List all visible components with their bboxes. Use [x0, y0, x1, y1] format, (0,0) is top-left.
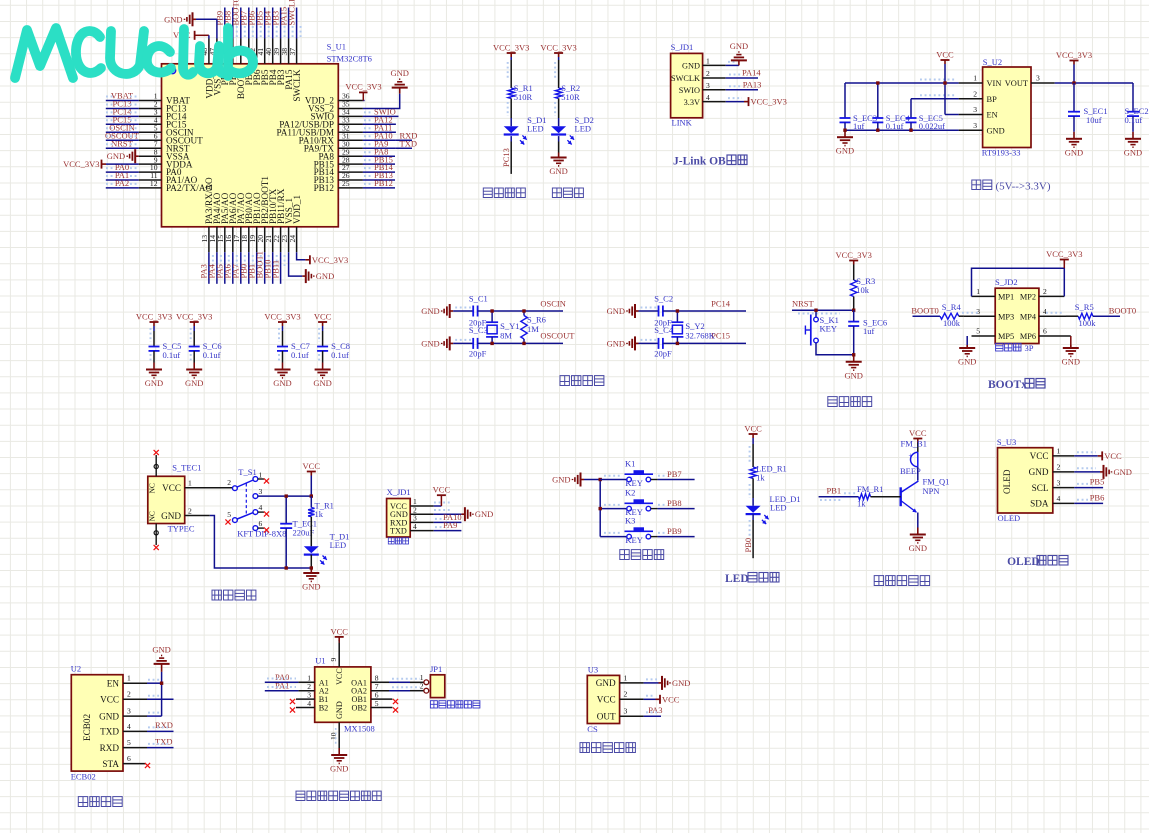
ground below S_EC2 [1124, 132, 1142, 158]
svg-text:2: 2 [127, 690, 131, 699]
ground (left of S_C1) [421, 304, 453, 318]
svg-text:PC13: PC13 [501, 148, 511, 167]
net label PC15 [106, 115, 138, 125]
jumper S_JD2 body [995, 288, 1039, 343]
svg-text:1: 1 [1057, 447, 1061, 456]
pin 1 of JP1 [420, 673, 429, 685]
title: bluetooth module (CJK) [78, 797, 122, 807]
pin 34 SWIO (right) [311, 108, 363, 122]
wire net PA2 [106, 187, 139, 189]
wire emitter to ground [917, 513, 919, 528]
svg-text:MP2: MP2 [1020, 293, 1036, 302]
junction EC5 bottom [909, 129, 912, 132]
ground at pin 8 VSSA [107, 149, 139, 163]
net label PB7 [604, 469, 682, 479]
wire net PC14 [106, 115, 139, 117]
svg-text:6: 6 [1043, 327, 1047, 336]
pin 35 VSS_2 (right) [308, 100, 363, 114]
designator JP1 [430, 664, 442, 674]
junction key top [814, 309, 817, 312]
ground (left of S_C3) [421, 336, 453, 350]
wire net VBAT [106, 100, 139, 102]
connector JP1 body [430, 675, 444, 698]
wire to net [651, 508, 695, 510]
wire net PC15 [106, 123, 139, 125]
svg-text:PB0: PB0 [743, 538, 753, 553]
wire net OSCIN [106, 131, 139, 133]
svg-text:10k: 10k [856, 285, 870, 295]
net label PC14 [106, 107, 138, 117]
svg-text:VCC_3V3: VCC_3V3 [493, 43, 529, 53]
capacitor S_C7 0.1uf [277, 341, 310, 360]
net label PB6 [1077, 492, 1104, 502]
wire pin5 to ground [966, 336, 968, 347]
wire [279, 326, 283, 362]
pin 5 OSCIN (left) [139, 124, 194, 138]
svg-text:10: 10 [329, 732, 338, 740]
designator U2 [71, 664, 81, 674]
wire net PA13 [726, 89, 758, 91]
svg-text:GND: GND [316, 271, 334, 281]
wire pin2 to VCC [644, 696, 656, 700]
pin 19 PB1/AO (bottom) [248, 192, 262, 252]
pin 2 VCC of U2 [100, 690, 147, 705]
wire [453, 340, 473, 344]
svg-text:GND: GND [958, 357, 976, 367]
junction EC3/ground [843, 129, 846, 132]
svg-text:4: 4 [706, 93, 710, 102]
wire pin1 [147, 680, 162, 684]
net label PB13 [364, 170, 393, 180]
svg-text:2: 2 [420, 681, 424, 690]
power VCC_3V3 above VOUT [1056, 50, 1092, 83]
wire to net [651, 479, 695, 481]
key switch K1 KEY [625, 459, 654, 489]
rotated VCC text inside U1 [335, 668, 344, 685]
wire [453, 308, 473, 312]
svg-text:4: 4 [259, 503, 263, 512]
svg-text:3: 3 [706, 81, 710, 90]
pin 4 B2 of U1 [296, 699, 328, 713]
svg-text:MX1508: MX1508 [344, 724, 375, 734]
net label PB9 [215, 11, 229, 37]
pin 4 TXD of U2 [100, 722, 147, 737]
svg-text:VCC: VCC [744, 424, 762, 434]
svg-text:SCL: SCL [1032, 483, 1049, 493]
wire [752, 478, 754, 505]
svg-text:VCC_3V3: VCC_3V3 [836, 250, 872, 260]
net label PB11 [270, 255, 284, 279]
connector X_JD1 body [387, 499, 411, 538]
wire net PB15 [363, 163, 395, 165]
svg-text:PA1: PA1 [275, 680, 289, 690]
svg-text:FM_B1: FM_B1 [901, 438, 927, 448]
pin 2 VCC of U3 sensor [597, 690, 644, 705]
pin 28 PB15 (right) [314, 155, 363, 169]
svg-text:1: 1 [127, 674, 131, 683]
svg-text:S_R4: S_R4 [942, 302, 962, 312]
wire [639, 340, 659, 344]
wire net PA5 [224, 252, 226, 284]
net label NRST [792, 299, 840, 314]
svg-text:OLED: OLED [1007, 556, 1040, 568]
svg-text:TYPEC: TYPEC [168, 524, 195, 534]
wire pin2 to ground [1074, 468, 1100, 472]
pin 11 PA1/AO (left) [139, 171, 198, 185]
svg-text:5: 5 [127, 738, 131, 747]
wire pin2 to ground [434, 513, 462, 515]
svg-text:3: 3 [1057, 478, 1061, 487]
svg-text:PA14: PA14 [742, 68, 761, 78]
pin 3 MP3 of S_JD2 [964, 307, 1014, 322]
wire [853, 297, 855, 311]
svg-text:3: 3 [973, 121, 977, 130]
switch T_S1 KFT DIP-8X8 [227, 467, 286, 539]
pin 1 VCC of X_JD1 [390, 497, 434, 511]
wire net PB9 [224, 8, 226, 39]
pin 1 MP1 of S_JD2 [972, 287, 1015, 302]
wire net PA15 [288, 8, 290, 39]
module S_U3 OLED body [998, 448, 1053, 513]
designator S_JD2 [995, 277, 1018, 287]
svg-text:GND: GND [552, 475, 570, 485]
LED S_D1 [504, 115, 547, 145]
buzzer FM_B1 BEEP [900, 438, 927, 476]
svg-text:1: 1 [976, 287, 980, 296]
svg-text:24: 24 [288, 235, 297, 243]
svg-text:KEY: KEY [625, 478, 642, 488]
svg-text:25: 25 [342, 179, 350, 188]
svg-text:GND: GND [145, 378, 163, 388]
wire net PB8 [232, 8, 234, 39]
svg-text:BOOTx: BOOTx [988, 379, 1027, 391]
net label PA10 [364, 130, 393, 140]
ground at pin 47 VSS_3 [164, 12, 217, 38]
svg-text:U2: U2 [71, 664, 81, 674]
svg-text:PB5: PB5 [1090, 477, 1105, 487]
net label PC14 [711, 299, 731, 309]
svg-text:S_U1: S_U1 [327, 42, 346, 52]
svg-text:100k: 100k [1079, 318, 1097, 328]
svg-text:0.022uf: 0.022uf [919, 121, 945, 131]
svg-text:GND: GND [844, 370, 862, 380]
svg-text:GND: GND [682, 62, 700, 71]
resistor LED_R1 1k [750, 464, 787, 483]
pin 6 MP6 of S_JD2 [1020, 327, 1071, 342]
junction EC4 top [876, 81, 879, 84]
svg-text:VCC: VCC [433, 484, 451, 494]
pin 40 PB4 (top) [264, 39, 278, 86]
wire VSS_2 to ground [363, 94, 400, 109]
pin 1 A1 of U1 [298, 674, 328, 688]
capacitor S_C5 0.1uf [149, 341, 182, 360]
pin 6 OSCOUT (left) [139, 131, 203, 145]
key switch S_K1 KEY [805, 310, 838, 345]
wire key bottom [816, 343, 854, 355]
net label PB0 (rotated) [743, 538, 753, 553]
svg-text:3: 3 [624, 707, 628, 716]
rotated ECB02 text inside [82, 714, 92, 741]
svg-text:MP6: MP6 [1020, 332, 1036, 341]
svg-text:GND: GND [152, 644, 170, 654]
power VCC above X_JD1 pin1 [433, 484, 451, 506]
wire net PA9 [363, 147, 396, 149]
svg-text:S_C1: S_C1 [469, 294, 488, 304]
svg-text:S_C2: S_C2 [654, 294, 673, 304]
designator X_JD1 [387, 487, 411, 497]
pin 4 SDA of S_U3 [1030, 494, 1074, 509]
no-connect X bottom [154, 545, 159, 550]
resistor S_R3 10k [851, 276, 876, 297]
wire GND bus [845, 129, 959, 131]
junction crystal bottom [676, 342, 679, 345]
pin 4 MP4 of S_JD2 [1020, 307, 1066, 322]
wire net PB3 [280, 8, 282, 39]
svg-text:3: 3 [127, 707, 131, 716]
pin 20 PB2/BOOT1 (bottom) [256, 176, 270, 253]
junction R6 bottom [522, 342, 525, 345]
junction EC1 top [285, 494, 288, 497]
net label SWCLK [286, 0, 300, 37]
sensor U3 CS body [587, 675, 619, 723]
capacitor S_C2 20pF [654, 294, 673, 328]
pin 30 PA9/TX (right) [304, 139, 363, 153]
wire VIN bus [845, 80, 959, 84]
svg-text:VCC_3V3: VCC_3V3 [1056, 50, 1092, 60]
svg-text:GND: GND [164, 14, 182, 24]
svg-text:VCC_3V3: VCC_3V3 [540, 43, 576, 53]
pin 2 GND of X_JD1 [390, 505, 434, 519]
ground below S_C5 [145, 363, 163, 389]
title: DC motor driver module (CJK) [296, 791, 381, 800]
svg-text:SWCLK: SWCLK [292, 69, 302, 102]
svg-text:FM_R1: FM_R1 [857, 484, 883, 494]
pin 26 PB13 (right) [314, 171, 363, 185]
pin 2 MP2 of S_JD2 [1020, 287, 1064, 302]
designator S_U2 [983, 57, 1002, 67]
pin 5 OB2 of U1 [352, 699, 393, 713]
title: programmable LED (CJK) [483, 188, 525, 198]
svg-text:VCC: VCC [1030, 451, 1049, 461]
wire net PA0 [265, 681, 299, 683]
pin 2 SWCLK of S_JD1 [671, 69, 726, 83]
svg-text:GND: GND [335, 701, 344, 719]
capacitor S_EC6 1uf [848, 310, 887, 355]
pin 2 of JP1 [420, 681, 429, 693]
pin 3 SWIO of S_JD1 [679, 81, 726, 95]
pin 1 GND of U3 sensor [596, 673, 644, 688]
svg-text:OLED: OLED [998, 513, 1021, 523]
svg-text:GND: GND [607, 306, 625, 316]
svg-text:S_U3: S_U3 [997, 437, 1016, 447]
wire [558, 99, 560, 127]
pin 2 PC13 (left) [139, 100, 187, 114]
no-connect at STA [145, 763, 150, 768]
svg-text:GND: GND [421, 338, 439, 348]
wire net PA1 [265, 690, 299, 692]
title: buzzer circuit (CJK) [874, 576, 929, 586]
net label PB15 [364, 154, 393, 164]
junction pin1/gnd [160, 682, 163, 685]
svg-text:GND: GND [987, 126, 1005, 135]
svg-text:GND: GND [672, 678, 690, 688]
net label PA4 [207, 255, 221, 279]
pin 3 PC14 (left) [139, 108, 187, 122]
capacitor S_C8 0.1uf [317, 341, 350, 360]
svg-text:LED: LED [527, 124, 544, 134]
svg-text:GND: GND [1062, 357, 1080, 367]
capacitor S_C6 0.1uf [189, 341, 222, 360]
svg-text:PC14: PC14 [711, 299, 731, 309]
power VCC at pin 48 VDD_3 [173, 30, 209, 40]
svg-text:RT9193-33: RT9193-33 [982, 148, 1021, 158]
capacitor S_EC4 0.1uf [872, 83, 910, 131]
svg-text:GND: GND [99, 711, 119, 721]
ground below pin 5 [958, 345, 976, 367]
power VCC_3V3 at pin 24 VDD_1 [305, 255, 348, 265]
svg-text:3: 3 [1036, 74, 1040, 83]
net label RXD (PA10 row) [396, 130, 418, 140]
svg-text:TXD: TXD [400, 138, 417, 148]
svg-text:PB12: PB12 [374, 178, 393, 188]
svg-text:3P: 3P [1025, 343, 1034, 353]
svg-text:20pF: 20pF [469, 349, 487, 359]
svg-text:SWCLK: SWCLK [671, 74, 700, 83]
wire net PA9 [434, 530, 462, 532]
svg-text:VCC_3V3: VCC_3V3 [312, 255, 348, 265]
net label PA0 [106, 162, 138, 172]
wire net PA4 [216, 252, 218, 284]
wire pin4 to power [726, 98, 744, 102]
no-connect OB1 [393, 699, 398, 704]
svg-text:4: 4 [127, 722, 131, 731]
net label PB12 [364, 178, 393, 188]
pin 13 PA3/RX/AO (bottom) [200, 177, 214, 252]
stub pin1 + no-connect [258, 478, 264, 480]
svg-text:+: + [909, 452, 913, 460]
wire net PB12 [363, 187, 395, 189]
wire OA2 to JP1 [389, 687, 424, 691]
svg-text:PA3: PA3 [648, 705, 662, 715]
resistor S_R5 100k [1046, 302, 1120, 328]
wire pin1 to VCC [434, 503, 452, 511]
pin 15 PA5/AO (bottom) [216, 192, 230, 252]
pin 1 GND of S_JD1 [682, 57, 726, 71]
net label PA3 [199, 255, 213, 279]
title: crystal circuit (CJK) [560, 376, 604, 386]
svg-text:S_Y1: S_Y1 [500, 321, 519, 331]
svg-text:FM_Q1: FM_Q1 [923, 477, 950, 487]
pin 4 3.3V of S_JD1 [684, 93, 726, 107]
net label OSCIN [106, 123, 138, 133]
svg-text:3: 3 [259, 487, 263, 496]
svg-text:ECB02: ECB02 [82, 714, 92, 741]
title: BOOTx settings [988, 379, 1045, 392]
pin 23 VSS_1 (bottom) [280, 198, 294, 253]
svg-text:LINK: LINK [672, 118, 693, 128]
svg-text:GND: GND [107, 151, 125, 161]
pin 4 PC15 (left) [139, 116, 187, 130]
pin 47 VSS_3 (top) [208, 39, 222, 96]
wire [558, 136, 560, 152]
wire [310, 555, 312, 568]
svg-text:GND: GND [475, 509, 493, 519]
svg-text:GND: GND [273, 378, 291, 388]
pin 46 PB9 (top) [216, 39, 230, 86]
shell pin bottom [154, 524, 158, 546]
junction VCC/R1 [310, 494, 313, 497]
pin 7 NRST (left) [139, 139, 190, 153]
ground below S_C6 [185, 363, 203, 389]
svg-text:VCC: VCC [335, 668, 344, 685]
no-connect B2 [290, 707, 295, 712]
svg-text:1k: 1k [756, 473, 765, 483]
svg-text:2: 2 [624, 690, 628, 699]
svg-text:VCC_3V3: VCC_3V3 [345, 81, 381, 91]
net label PA15 [278, 7, 292, 37]
svg-text:NC: NC [148, 511, 157, 521]
wire OSCOUT row [478, 342, 563, 344]
designator S_U1 [327, 42, 346, 52]
net label PA2 [106, 178, 138, 188]
designator U1 (driver) [315, 656, 325, 666]
svg-text:NC: NC [148, 483, 157, 493]
svg-text:GND: GND [1124, 147, 1142, 157]
ground above pin 1 of S_JD1 [730, 41, 748, 66]
junction NRST/R3 [852, 309, 855, 312]
wire [153, 351, 155, 363]
capacitor S_C3 20pF [469, 325, 488, 359]
svg-text:SWCLK: SWCLK [286, 0, 296, 26]
no-connect at pin5 left [225, 519, 230, 524]
ground (power circuit) [302, 568, 320, 592]
pin 10 PA0 (left) [139, 163, 182, 177]
pin 3 B1 of U1 [296, 691, 328, 705]
svg-text:LED: LED [725, 573, 749, 585]
svg-text:PB9: PB9 [667, 526, 682, 536]
connector S_TEC1 TYPEC body [148, 476, 185, 523]
junction EC4 bottom [876, 129, 879, 132]
net label PA9 [364, 138, 388, 148]
svg-text:GND: GND [549, 166, 567, 176]
wire OSCIN row [478, 310, 563, 312]
LED T_D1 [304, 532, 350, 565]
svg-text:U1: U1 [315, 656, 325, 666]
wire net PA3 [208, 252, 210, 284]
pin 27 PB14 (right) [314, 163, 363, 177]
svg-text:PB11: PB11 [270, 260, 280, 279]
net label PB5 [255, 11, 269, 37]
resistor S_R2 510R [555, 83, 580, 102]
net label PA9 [435, 520, 457, 530]
svg-text:MP3: MP3 [998, 312, 1014, 321]
svg-text:VCC: VCC [662, 694, 680, 704]
wire branch [600, 536, 627, 538]
value DC motor socket (CJK) [430, 701, 480, 708]
net label PB7 [239, 11, 253, 37]
rotated GND text inside U1 [335, 701, 344, 719]
wire net PA14 [726, 77, 758, 79]
value OLED [998, 513, 1021, 523]
wire net PB11 [280, 252, 282, 284]
svg-text:U3: U3 [588, 664, 598, 674]
wire net PB7 [248, 8, 250, 39]
net label PA12 [364, 115, 393, 125]
junction VOUT/VCC_3V3 [1072, 81, 1075, 84]
value TYPEC [168, 524, 195, 534]
svg-text:VCC_3V3: VCC_3V3 [136, 312, 172, 322]
wire pin2 VCC [147, 696, 174, 700]
